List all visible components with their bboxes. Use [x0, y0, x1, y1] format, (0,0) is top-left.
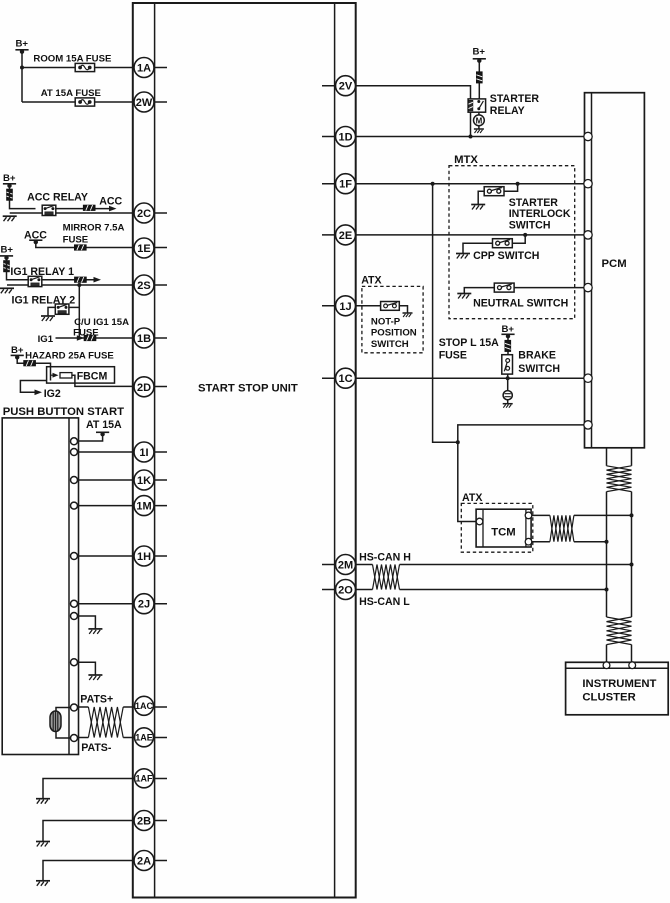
connector 2A	[134, 851, 154, 871]
ground (2B)	[36, 842, 50, 847]
svg-text:2E: 2E	[339, 230, 352, 242]
wire PATS- to braid	[78, 737, 89, 739]
svg-text:2W: 2W	[136, 97, 153, 109]
svg-text:FBCM: FBCM	[77, 370, 108, 382]
svg-text:HS-CAN H: HS-CAN H	[359, 551, 411, 563]
svg-text:MTX: MTX	[454, 154, 478, 166]
wire relay2 to 2S junction and down to 1B wire	[78, 285, 80, 338]
fuse MIRROR 7.5A	[74, 245, 86, 250]
wire 2O to braid	[356, 589, 373, 591]
connector 1AC	[135, 696, 154, 715]
node junction HS-CAN L on bus left	[605, 588, 609, 592]
svg-text:STARTER: STARTER	[490, 93, 540, 105]
svg-text:INSTRUMENT: INSTRUMENT	[582, 678, 656, 690]
wire B+ to IG1 relay 1	[7, 257, 29, 280]
node junction CPP on 2E	[523, 233, 527, 237]
svg-text:1AC: 1AC	[135, 701, 154, 711]
relay IG1 RELAY 1	[28, 276, 42, 286]
svg-text:PCM: PCM	[602, 258, 627, 270]
fuse (B+ to starter relay)	[476, 72, 482, 83]
ground (stop lamp)	[503, 404, 513, 408]
connector 1D	[336, 127, 356, 147]
svg-text:1AE: 1AE	[135, 733, 153, 743]
fuse STOP L 15A	[505, 340, 511, 351]
wire CPP switch to 2E	[512, 235, 525, 243]
wire 1AF to ground	[43, 779, 134, 799]
svg-text:B+: B+	[11, 345, 24, 356]
wire pin to 1K	[78, 479, 134, 481]
B+ feed AT 15A	[96, 432, 109, 436]
wire CPP switch to ground	[463, 243, 492, 253]
connector 1B	[134, 328, 154, 348]
svg-text:ROOM 15A FUSE: ROOM 15A FUSE	[33, 53, 112, 64]
wire pin to 2J	[78, 603, 134, 605]
svg-text:ACC: ACC	[99, 196, 122, 208]
wire FBCM output to 2D	[72, 375, 134, 386]
svg-text:INTERLOCK: INTERLOCK	[509, 208, 571, 220]
MTX dashed box	[449, 166, 575, 319]
PCM box	[585, 93, 645, 448]
wire TCM braid to bus lower	[574, 541, 607, 543]
wire TCM lower to braid	[532, 541, 550, 543]
wire brake switch to stop lamp	[507, 374, 509, 391]
wire 1J to not-p switch	[356, 305, 381, 307]
wire IG1 relay 2 right	[69, 306, 79, 308]
svg-text:BRAKE: BRAKE	[518, 350, 556, 362]
connector 2O	[336, 580, 356, 600]
pin PATS+	[71, 704, 78, 711]
wire to 1A	[22, 67, 134, 69]
fuse (B+ to IG1 relay 1)	[4, 261, 10, 272]
twisted pair braid TCM	[550, 515, 574, 541]
svg-text:B+: B+	[473, 47, 486, 58]
wire stop lamp to ground	[507, 400, 509, 404]
pin PCM 1D	[584, 132, 592, 140]
svg-text:MIRROR 7.5A: MIRROR 7.5A	[63, 223, 125, 234]
ground (2A)	[36, 881, 50, 886]
svg-text:IG2: IG2	[44, 388, 61, 400]
relay IG1 RELAY 2	[55, 304, 69, 314]
wire braid to cluster right pin	[631, 645, 633, 663]
svg-text:PATS-: PATS-	[81, 742, 112, 754]
svg-text:FUSE: FUSE	[63, 235, 89, 246]
switch BRAKE	[502, 355, 513, 374]
node junction on 1A wire	[20, 66, 24, 70]
wire pin to 1I	[78, 451, 134, 453]
wire TCM braid to bus upper	[574, 514, 632, 516]
connector 1H	[134, 546, 154, 566]
pin instrument cluster left	[603, 662, 610, 669]
wire IG1 relay 1 coil to 2S	[7, 284, 134, 286]
svg-text:1J: 1J	[339, 301, 351, 313]
svg-text:2V: 2V	[339, 81, 353, 93]
connector 2E	[336, 225, 356, 245]
wire pin to 1M	[78, 505, 134, 507]
wire TCM upper to braid	[532, 514, 550, 516]
switch CPP	[493, 239, 513, 248]
pin TCM left	[476, 518, 483, 525]
connector 1AE	[135, 728, 154, 747]
wire B+ to starter relay switch	[478, 60, 480, 99]
node junction 1F branch	[431, 182, 435, 186]
lamp stop light	[503, 391, 512, 400]
svg-text:HAZARD 25A FUSE: HAZARD 25A FUSE	[25, 351, 114, 362]
ground (neutral switch)	[457, 294, 471, 299]
resistor inside FBCM	[60, 373, 72, 378]
svg-text:IG1: IG1	[38, 334, 54, 345]
wire 1F to PCM	[356, 183, 585, 185]
wire B+ vertical	[21, 51, 23, 102]
FBCM box	[47, 367, 115, 383]
ground (CPP switch)	[456, 254, 470, 259]
svg-text:HS-CAN L: HS-CAN L	[359, 596, 410, 608]
wire 2E to PCM	[356, 234, 585, 236]
node junction 2S wire	[77, 283, 81, 287]
wire 2M to braid	[356, 564, 373, 566]
twisted pair braid HS-CAN	[373, 565, 400, 590]
wire motor to ground	[478, 126, 480, 129]
wire B+ through hazard fuse to FBCM	[17, 357, 50, 381]
wire ACC to 1E	[36, 242, 134, 248]
svg-text:SWITCH: SWITCH	[371, 339, 409, 350]
svg-text:2J: 2J	[138, 599, 150, 611]
wire pin to ground 1	[78, 616, 96, 629]
pin PCM 1C	[584, 374, 592, 382]
wire 1C to PCM	[356, 377, 585, 379]
wire braid to 1AE	[123, 737, 135, 739]
pin circles on push button box	[71, 438, 78, 666]
switch NOT-P POSITION	[381, 302, 400, 311]
pin PCM neutral	[584, 283, 592, 291]
connector 1K	[134, 470, 154, 490]
node IG1 arrow	[77, 335, 85, 341]
ground (push button 2)	[88, 675, 102, 680]
wire neutral switch to ground	[464, 288, 495, 294]
svg-text:1H: 1H	[137, 551, 151, 563]
svg-text:SWITCH: SWITCH	[518, 363, 560, 375]
pin instrument cluster right	[629, 662, 636, 669]
START STOP UNIT box	[133, 3, 356, 898]
ATX dashed box (not-p switch)	[362, 286, 423, 352]
pin PCM tcm-feed	[584, 421, 592, 429]
wire braid to 1AC	[123, 706, 135, 708]
svg-text:1F: 1F	[339, 179, 352, 191]
svg-text:CPP SWITCH: CPP SWITCH	[473, 250, 539, 262]
wire HS-CAN L to bus	[400, 589, 607, 591]
wire to 2W	[22, 101, 134, 103]
ground (starter motor)	[474, 129, 484, 133]
connector 2B	[134, 811, 154, 831]
wire pin to ground 2	[78, 662, 96, 675]
svg-text:2S: 2S	[137, 280, 150, 292]
svg-text:AT 15A: AT 15A	[86, 419, 122, 431]
svg-text:1E: 1E	[137, 243, 150, 255]
node junction HS-CAN H on bus right	[630, 563, 634, 567]
pin PCM 2E	[584, 231, 592, 239]
relay STARTER RELAY	[468, 99, 486, 112]
ATX dashed box (TCM)	[461, 503, 533, 552]
wire starter interlock to 1F	[504, 184, 518, 192]
transistor symbol inside FBCM	[53, 373, 59, 378]
node junction interlock on 1F	[516, 182, 520, 186]
fuse ROOM 15A	[75, 63, 94, 71]
fuse (ACC output)	[83, 205, 95, 210]
svg-text:STOP L 15A: STOP L 15A	[439, 337, 499, 349]
twisted pair braid bus-cluster	[607, 617, 632, 645]
svg-text:2D: 2D	[137, 382, 151, 394]
svg-text:ATX: ATX	[462, 492, 482, 504]
wire 2V to starter relay coil	[356, 86, 471, 137]
wire 1F branch down to TCM junction	[433, 184, 458, 443]
svg-text:RELAY: RELAY	[490, 105, 525, 117]
connector 2C	[134, 203, 154, 223]
svg-text:2O: 2O	[338, 585, 353, 597]
fuse (B+ to ACC relay)	[7, 189, 13, 200]
svg-text:C/U IG1 15A: C/U IG1 15A	[74, 317, 129, 328]
svg-text:PUSH BUTTON START: PUSH BUTTON START	[3, 406, 124, 418]
ground (IG1 relay 2)	[41, 316, 55, 321]
wire 2B to ground	[43, 821, 134, 842]
svg-text:ACC RELAY: ACC RELAY	[27, 192, 88, 204]
svg-text:START STOP UNIT: START STOP UNIT	[198, 383, 298, 395]
node junction brake on 1C	[506, 376, 510, 380]
svg-text:2A: 2A	[137, 856, 151, 868]
svg-text:B+: B+	[16, 39, 29, 50]
wire bus right line	[631, 492, 633, 617]
inner stubs of left connector pins	[144, 68, 167, 861]
connector 1F	[336, 174, 356, 194]
wire coil to PATS- pin	[56, 732, 70, 739]
svg-text:ATX: ATX	[361, 275, 381, 287]
wire ACC relay output	[56, 208, 112, 210]
svg-text:SWITCH: SWITCH	[509, 220, 551, 232]
wire IG1 relay 2 left to ground	[48, 307, 55, 315]
switch NEUTRAL	[494, 283, 514, 292]
node junction on bus right (TCM H)	[630, 513, 634, 517]
connector 2S	[134, 275, 154, 295]
wire PCM bottom left to braid	[606, 448, 608, 466]
svg-text:1B: 1B	[137, 333, 151, 345]
coil PATS antenna	[50, 711, 61, 732]
node IG1 output arrow	[94, 277, 102, 283]
TCM box	[476, 509, 531, 547]
wire PCM bottom right to braid	[631, 448, 633, 466]
svg-text:NOT-P: NOT-P	[371, 317, 401, 328]
wire braid to cluster left pin	[606, 645, 608, 663]
svg-text:1C: 1C	[338, 373, 352, 385]
connector 1E	[134, 238, 154, 258]
svg-text:M: M	[476, 116, 483, 125]
fuse (IG1 relay 1 output)	[75, 277, 87, 282]
connector 1M	[134, 496, 154, 516]
ground (push button 1)	[88, 629, 102, 634]
wire B+ to brake switch	[507, 336, 509, 355]
svg-text:1I: 1I	[139, 447, 148, 459]
wire starter interlock to ground	[478, 191, 485, 204]
node junction starter relay coil on 1D	[469, 135, 473, 139]
connector 2M	[336, 555, 356, 575]
svg-text:1A: 1A	[137, 63, 151, 75]
switch STARTER INTERLOCK	[484, 187, 504, 196]
svg-text:2M: 2M	[338, 560, 353, 572]
wire 2A to ground	[43, 861, 134, 881]
svg-text:NEUTRAL SWITCH: NEUTRAL SWITCH	[473, 297, 568, 309]
svg-text:FUSE: FUSE	[439, 350, 467, 362]
svg-text:2C: 2C	[137, 208, 151, 220]
wire pin to 1H	[78, 555, 134, 557]
connector 1I	[134, 442, 154, 462]
wire neutral switch to PCM	[514, 287, 584, 289]
pin TCM right lower	[525, 538, 532, 545]
node junction TCM feed	[456, 440, 460, 444]
twisted pair braid PCM-bus	[607, 466, 632, 492]
fuse C/U IG1 15A	[84, 335, 96, 340]
svg-text:1M: 1M	[136, 501, 151, 513]
wire IG1 relay 1 output	[42, 279, 97, 281]
connector 2D	[134, 377, 154, 397]
svg-text:1D: 1D	[338, 132, 352, 144]
ground (ACC relay coil)	[3, 216, 17, 221]
svg-text:TCM: TCM	[491, 527, 515, 539]
svg-text:STARTER: STARTER	[509, 197, 559, 209]
wire HS-CAN H to bus	[400, 564, 632, 566]
wire bus left line	[606, 492, 608, 617]
motor M (starter)	[474, 115, 485, 126]
svg-text:B+: B+	[3, 173, 16, 184]
fuse HAZARD 25A	[24, 361, 36, 366]
INSTRUMENT CLUSTER box	[566, 662, 669, 715]
connector 1C	[336, 368, 356, 388]
fuse AT 15A	[75, 98, 94, 106]
wire PCM to TCM	[458, 425, 584, 522]
connector 1A	[134, 58, 154, 78]
wire AT 15A to push button pin	[78, 434, 103, 442]
relay ACC	[42, 205, 56, 215]
ground (IG1 relay 1 coil)	[0, 288, 14, 293]
wire B+ to ACC relay	[10, 185, 36, 209]
svg-text:POSITION: POSITION	[371, 328, 417, 339]
connector 1AF	[135, 769, 154, 788]
wire 1D to PCM	[356, 136, 585, 138]
inner stubs of right connector pins	[322, 86, 346, 590]
PUSH BUTTON START box	[2, 418, 78, 755]
ground (starter interlock)	[471, 205, 485, 210]
svg-text:1K: 1K	[137, 475, 151, 487]
svg-text:B+: B+	[1, 245, 14, 256]
wire ACC relay coil to 2C	[10, 212, 135, 214]
svg-text:CLUSTER: CLUSTER	[582, 691, 635, 703]
node ACC output arrow	[109, 206, 117, 212]
pin PATS-	[71, 735, 78, 742]
ground (1AF)	[36, 799, 50, 804]
connector 2V	[336, 76, 356, 96]
wire PATS+ to braid	[78, 706, 89, 708]
pin PCM 1F	[584, 180, 592, 188]
ground (not-p switch)	[403, 313, 413, 317]
node IG2 arrow	[35, 390, 43, 396]
wire not-p switch to ground	[399, 306, 407, 313]
svg-text:B+: B+	[502, 324, 515, 335]
svg-text:1AF: 1AF	[135, 774, 153, 784]
wire IG2 output	[20, 381, 46, 393]
node junction on bus left (TCM L)	[605, 540, 609, 544]
pin TCM right upper	[525, 512, 532, 519]
connector 2W	[134, 92, 154, 112]
svg-text:2B: 2B	[137, 816, 151, 828]
wire starter relay to motor	[478, 112, 480, 115]
wire IG1 to 1B	[56, 337, 135, 339]
connector 2J	[134, 594, 154, 614]
svg-text:PATS+: PATS+	[80, 694, 113, 706]
twisted pair braid PATS	[88, 707, 123, 738]
wire PATS+ pin to coil	[56, 708, 70, 712]
connector 1J	[336, 296, 356, 316]
